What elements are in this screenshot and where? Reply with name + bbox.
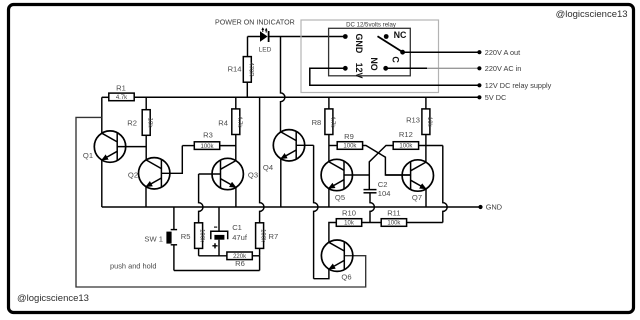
svg-text:220V AC in: 220V AC in — [485, 64, 522, 73]
svg-text:push and hold: push and hold — [110, 262, 156, 271]
svg-text:12V: 12V — [354, 63, 364, 79]
resistor R7 — [256, 223, 279, 249]
wire Q4 base down (hop GND rail) — [314, 145, 318, 278]
svg-text:Q3: Q3 — [248, 171, 258, 180]
wire R13 bottom to Q7 collector — [425, 135, 427, 163]
relay pin NC — [384, 30, 407, 40]
transistor Q3 — [212, 158, 258, 189]
wire Q2 emitter to GND rail — [145, 187, 147, 207]
relay inner box — [329, 28, 411, 76]
capacitor C1 47uf electrolytic — [211, 207, 248, 256]
svg-text:R6: R6 — [235, 259, 245, 268]
transistor Q1 — [83, 131, 126, 162]
terminal 12V DC relay supply — [477, 81, 551, 90]
svg-text:10k: 10k — [146, 118, 152, 129]
resistor R10 — [336, 208, 361, 226]
svg-text:Q4: Q4 — [263, 163, 273, 172]
svg-text:100k: 100k — [260, 229, 266, 243]
resistor R4 — [218, 109, 242, 135]
transistor Q7 — [402, 160, 433, 202]
wire R12 to Q5 base and C2 (cross) — [369, 146, 393, 190]
wire Q3 base — [199, 173, 221, 175]
transistor Q4 — [263, 130, 305, 172]
svg-text:POWER ON INDICATOR: POWER ON INDICATOR — [215, 19, 295, 27]
wire C2 bottom to R10/R11 node (hop GND rail) — [370, 193, 374, 223]
relay outer box — [301, 20, 439, 93]
svg-text:R8: R8 — [312, 118, 322, 127]
svg-text:R11: R11 — [387, 208, 400, 217]
wire 5V rail — [134, 96, 479, 98]
terminal 220V AC in — [477, 64, 521, 73]
terminal GND — [478, 203, 502, 212]
resistor R3 — [194, 130, 219, 150]
terminal 220V A out — [477, 48, 520, 57]
svg-text:100k: 100k — [199, 229, 205, 243]
svg-text:220V A out: 220V A out — [485, 48, 520, 57]
wire Q4 collector up to relay GND wire (hop 5V rail) — [281, 37, 285, 132]
svg-text:C2: C2 — [378, 180, 388, 189]
svg-text:R2: R2 — [127, 119, 137, 128]
transistor Q6 — [321, 240, 352, 282]
wire GND rail — [102, 206, 481, 208]
wire Q7 base stub — [385, 174, 410, 176]
wire Q4 emitter to GND rail — [280, 159, 282, 207]
svg-text:10k: 10k — [344, 221, 355, 227]
svg-text:47uf: 47uf — [232, 233, 248, 242]
relay pin GND — [343, 34, 364, 54]
switch SW1 push button — [144, 207, 177, 271]
resistor R12 — [393, 130, 418, 150]
svg-text:R3: R3 — [203, 130, 213, 139]
svg-text:C1: C1 — [232, 223, 242, 232]
svg-text:LED: LED — [259, 47, 272, 54]
wire R3 right lead to R4 bottom node — [220, 145, 236, 147]
svg-text:DC 12/5volts relay: DC 12/5volts relay — [346, 22, 397, 29]
wire Q1 base to R2 bottom node — [117, 146, 146, 148]
wire Q1 collector lead — [101, 97, 103, 133]
svg-text:100k: 100k — [387, 221, 401, 227]
wire R12 right to Q7 collector node — [419, 145, 443, 147]
wire R8 top lead — [328, 97, 330, 109]
wire R13 top lead — [425, 97, 427, 109]
wire R11 right lead — [407, 222, 443, 224]
wire R7 top lead from 5V rail (hop GND rail) — [260, 97, 264, 223]
svg-text:R14: R14 — [228, 65, 242, 74]
resistor R13 — [406, 109, 432, 135]
wire Q2 base up to R3 left — [161, 146, 182, 174]
svg-text:10k: 10k — [426, 117, 432, 128]
wire Q1 emitter to GND rail — [101, 160, 103, 207]
wire R8 bottom to Q5 collector — [328, 135, 330, 162]
svg-text:R13: R13 — [406, 115, 420, 124]
wire Q4 base — [296, 144, 313, 146]
svg-text:GND: GND — [354, 34, 364, 54]
wire R4 top lead — [235, 97, 237, 109]
wire 12V pin loop to 12V DC relay supply — [310, 68, 480, 85]
resistor R9 — [337, 132, 362, 150]
transistor Q5 — [321, 159, 352, 202]
svg-text:12V DC relay supply: 12V DC relay supply — [485, 81, 552, 90]
svg-text:Q7: Q7 — [412, 193, 422, 202]
LED D1 — [259, 27, 272, 53]
resistor R1 — [109, 83, 134, 101]
svg-text:4.7k: 4.7k — [329, 116, 335, 128]
wire R2 top lead — [145, 97, 147, 109]
wire R9 left lead to Q5 collector node — [329, 145, 337, 147]
svg-text:NC: NC — [394, 30, 407, 40]
terminal 5V DC — [477, 93, 506, 102]
svg-text:470R: 470R — [247, 62, 253, 77]
svg-text:SW 1: SW 1 — [144, 234, 163, 243]
wire R2 bottom to Q2 collector — [145, 135, 147, 160]
wire big feedback loop Q1 collector to Q6 base — [76, 117, 366, 287]
wire R10 right to R11 left — [362, 222, 382, 224]
wire R1 left lead to Q1 collector — [102, 96, 109, 98]
wire C to 220V A out — [403, 51, 480, 53]
wire R4 bottom to Q3 collector — [235, 135, 237, 161]
svg-text:GND: GND — [486, 203, 502, 212]
svg-text:100k: 100k — [343, 144, 357, 150]
wire R14 top lead — [247, 37, 249, 57]
wire NO black segment — [386, 67, 427, 69]
capacitor C2 104 — [364, 180, 391, 198]
svg-text:R5: R5 — [181, 232, 191, 241]
wire SW1 loop up to R7 bottom node — [259, 256, 261, 271]
wire R9 to Q7 base (cross) — [363, 146, 411, 176]
wire Q3 base down to R5 (hop GND rail) — [199, 174, 203, 223]
svg-text:@logicscience13: @logicscience13 — [556, 9, 628, 20]
wire Q5 emitter to GND rail — [328, 188, 330, 207]
wire Q5 base — [344, 174, 369, 176]
wire to Q6 emitter — [314, 269, 329, 279]
transistor Q2 — [128, 158, 170, 189]
svg-text:Q6: Q6 — [341, 273, 351, 282]
wire R5 bottom lead — [198, 248, 200, 255]
svg-text:Q1: Q1 — [83, 151, 93, 160]
wire R5 to R6 — [199, 255, 227, 257]
svg-text:R1: R1 — [116, 83, 126, 92]
relay pin C — [391, 50, 405, 64]
svg-text:100k: 100k — [399, 144, 413, 150]
svg-text:Q2: Q2 — [128, 171, 138, 180]
wire Q7 emitter to GND rail — [425, 189, 427, 207]
wire R14 bottom lead to 5V rail — [246, 82, 248, 97]
resistor R14 — [228, 57, 254, 83]
svg-text:100k: 100k — [200, 144, 214, 150]
relay pin 12V — [343, 63, 364, 79]
svg-text:R7: R7 — [269, 232, 279, 241]
svg-text:C: C — [391, 56, 401, 63]
wire SW1 bottom loop — [174, 270, 260, 272]
resistor R8 — [312, 109, 335, 135]
wire R7 bottom lead — [259, 248, 261, 255]
resistor R6 — [227, 252, 252, 268]
wire LED cathode to relay GND pin — [269, 36, 346, 38]
svg-text:R4: R4 — [218, 119, 228, 128]
wire R6 right to R7 bottom — [252, 255, 259, 257]
svg-text:NO: NO — [369, 57, 379, 70]
wire LED anode — [248, 36, 261, 38]
wire NO gray segment to 220V AC in — [427, 67, 479, 69]
svg-text:@logicscience13: @logicscience13 — [17, 293, 89, 304]
svg-text:4.7k: 4.7k — [236, 116, 242, 128]
wire Q7 collector node down to R11 (hop GND rail) — [443, 146, 447, 223]
relay pin NO — [369, 57, 388, 70]
svg-text:104: 104 — [378, 189, 391, 198]
resistor R11 — [381, 208, 406, 226]
svg-text:R9: R9 — [344, 132, 354, 141]
svg-text:R12: R12 — [399, 130, 413, 139]
svg-text:4.7k: 4.7k — [116, 95, 128, 101]
wire R10 left to Q6 collector — [329, 223, 336, 243]
svg-text:Q5: Q5 — [335, 193, 345, 202]
wire Q3 emitter to GND rail — [235, 187, 237, 207]
svg-text:5V DC: 5V DC — [485, 93, 507, 102]
relay switch arm — [378, 36, 403, 52]
svg-text:R10: R10 — [342, 208, 356, 217]
wire R3 left lead — [182, 145, 194, 147]
resistor R5 — [181, 223, 205, 249]
resistor R2 — [127, 110, 152, 136]
